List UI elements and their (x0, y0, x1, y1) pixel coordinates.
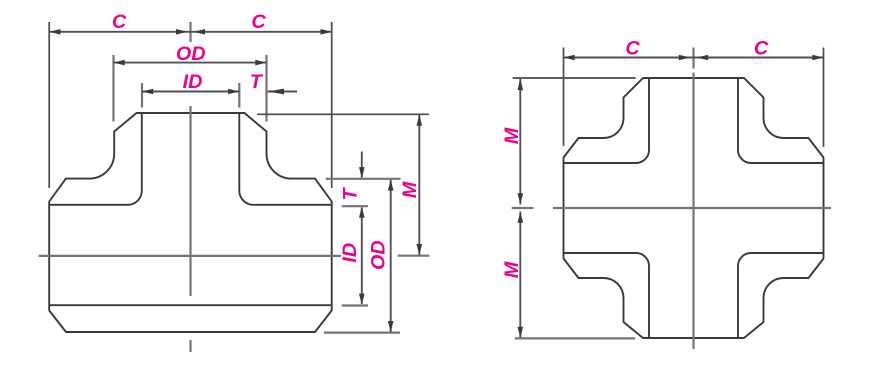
svg-text:ID: ID (339, 243, 361, 263)
cross C arrows (564, 55, 824, 61)
cross C extension line right (823, 48, 825, 148)
cross M upper arrows (518, 79, 524, 205)
tee C extension line left (48, 22, 50, 188)
cross bore bottom-right quadrant (738, 253, 824, 338)
svg-text:C: C (754, 37, 769, 59)
tee ID arrows (142, 89, 239, 95)
tee label ID right (rotated) (339, 243, 361, 263)
tee label OD right (rotated) (368, 240, 390, 270)
cross label M lower (rotated) (501, 261, 523, 278)
tee ID extension line right (238, 83, 240, 108)
cross C extension line left (563, 48, 565, 147)
tee horizontal centerline (39, 255, 341, 257)
svg-text:C: C (112, 11, 127, 33)
tee OD extension line left (112, 55, 114, 122)
tee M vertical arrows (417, 115, 423, 256)
cross M lower dimension line (519, 212, 521, 338)
cross horizontal centerline (553, 207, 831, 209)
cross C dimension line (564, 57, 824, 59)
svg-text:M: M (501, 261, 523, 278)
svg-text:OD: OD (368, 240, 390, 270)
tee OD arrows (114, 60, 267, 66)
tee ID vertical dimension line (361, 208, 363, 305)
tee right side tick at bore bottom (ID bottom) (342, 304, 368, 306)
tee C dimension line (49, 31, 332, 33)
svg-text:T: T (250, 71, 264, 93)
svg-text:ID: ID (183, 71, 203, 93)
tee OD extension line right (265, 55, 267, 122)
tee T vertical dimension line (361, 152, 363, 178)
tee C arrows (49, 29, 332, 35)
tee right side extension line at shoulder (for T and OD) (326, 178, 401, 180)
cross label M upper (rotated) (501, 127, 523, 144)
tee right side extension line at centerline (M bottom) (398, 255, 430, 257)
cross bore top-left quadrant (564, 78, 650, 163)
cross vertical centerline tick at C dimension (692, 48, 694, 69)
tee vertical centerline bottom dash (189, 340, 191, 352)
svg-text:T: T (340, 187, 362, 201)
cross bore bottom-left quadrant (564, 253, 650, 338)
svg-text:M: M (399, 181, 421, 198)
tee C extension line right (331, 22, 333, 188)
cross bore top-right quadrant (738, 78, 824, 163)
tee M vertical dimension line (418, 115, 420, 255)
svg-text:M: M (501, 127, 523, 144)
svg-text:C: C (251, 11, 266, 33)
tee ID vertical arrows (359, 207, 365, 305)
cross M middle extension dash (512, 207, 534, 209)
tee label M right (rotated) (399, 181, 421, 198)
tee ID dimension line (142, 91, 239, 93)
tee socket bore left wall (49, 113, 142, 205)
svg-text:C: C (625, 37, 640, 59)
cross M upper dimension line (519, 79, 521, 205)
tee T leader line top (268, 91, 298, 93)
cross M lower arrows (518, 212, 524, 338)
cross outer profile (564, 78, 824, 338)
tee outer profile (49, 113, 332, 332)
cross vertical centerline (692, 73, 694, 350)
cross M top extension line (513, 77, 636, 79)
tee label T right (rotated) (340, 187, 362, 201)
tee socket bore right wall (239, 113, 331, 205)
tee OD dimension line (114, 62, 267, 64)
tee run bore bottom line (49, 304, 332, 306)
tee ID extension line left (141, 83, 143, 108)
tee OD vertical dimension line (390, 180, 392, 332)
tee right side tick at socket depth (T bottom / ID top) (342, 205, 368, 207)
tee vertical centerline tick at C dimension (189, 22, 191, 42)
cross M bottom extension line (515, 337, 635, 339)
tee vertical centerline (189, 106, 191, 296)
tee T leader arrow (268, 89, 284, 95)
tee OD vertical arrows (388, 179, 394, 332)
tee right side extension line at socket top (for M) (257, 113, 429, 115)
tee right side extension line at body bottom (OD bottom) (324, 332, 400, 334)
tee T vertical arrow down (359, 167, 365, 178)
svg-text:OD: OD (176, 43, 206, 65)
